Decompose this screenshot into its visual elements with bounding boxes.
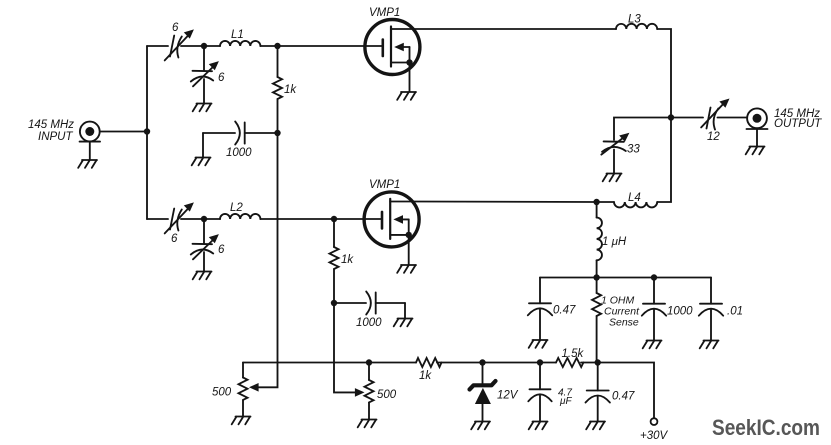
- wire input to bus: [100, 131, 147, 133]
- ground (C9): [529, 340, 548, 348]
- connector J1 input: [80, 122, 100, 160]
- wire drain U1 to L3: [414, 28, 617, 30]
- ground (R4): [232, 417, 251, 425]
- ground (J1): [78, 160, 97, 168]
- wire L3 to output node: [657, 29, 671, 118]
- wire varcap to junction: [181, 45, 204, 47]
- capacitor C10 1000: [642, 278, 666, 341]
- node K (pot2 top): [366, 359, 372, 365]
- svg-text:μF: μF: [559, 396, 572, 407]
- resistor R1 1k (top gate): [273, 46, 282, 133]
- svg-text:6: 6: [218, 244, 225, 256]
- wire top rail left segment: [147, 45, 168, 47]
- svg-text:1k: 1k: [284, 84, 297, 96]
- capacitor C1 variable 6 (series, top): [165, 29, 194, 60]
- svg-text:12V: 12V: [497, 390, 519, 402]
- inductor L4: [614, 202, 657, 207]
- node N (0.47 node): [595, 359, 601, 365]
- svg-text:VMP1: VMP1: [369, 179, 400, 191]
- svg-text:L2: L2: [230, 202, 243, 214]
- node B (gate node Q1): [274, 43, 280, 49]
- node D (output junction): [668, 114, 674, 120]
- svg-text:145 MHz: 145 MHz: [28, 119, 74, 131]
- ground (U1 source): [397, 92, 416, 100]
- ground (C11): [700, 341, 719, 349]
- resistor R7 1.5k: [556, 358, 583, 367]
- ground (C4): [603, 174, 622, 182]
- node J (1000 junction): [651, 274, 657, 280]
- svg-text:6: 6: [172, 22, 179, 34]
- svg-text:Sense: Sense: [609, 317, 639, 329]
- node L (zener node): [479, 359, 485, 365]
- capacitor C3 1000 (top bypass): [203, 122, 278, 158]
- svg-text:.01: .01: [727, 306, 743, 318]
- wire node E to L2: [204, 218, 220, 220]
- svg-text:1.5k: 1.5k: [562, 348, 585, 360]
- svg-text:L3: L3: [628, 14, 641, 26]
- svg-text:500: 500: [377, 389, 397, 401]
- ground (R5): [358, 420, 377, 428]
- capacitor C2 variable 6 (shunt, top): [191, 46, 219, 103]
- svg-text:SeekIC.com: SeekIC.com: [712, 415, 820, 440]
- wire L2 to node F: [260, 218, 334, 220]
- svg-text:VMP1: VMP1: [369, 7, 400, 19]
- svg-text:12: 12: [707, 131, 720, 143]
- svg-text:L1: L1: [231, 29, 244, 41]
- watermark SeekIC.com: [712, 415, 820, 440]
- transistor U2 VMP1 (bottom): [364, 192, 419, 265]
- svg-text:1 μH: 1 μH: [602, 236, 627, 248]
- capacitor C7 variable 6 (shunt, bottom): [191, 219, 219, 271]
- svg-text:+30V: +30V: [640, 430, 669, 442]
- svg-text:0.47: 0.47: [612, 391, 635, 403]
- terminal +30V: [651, 418, 658, 425]
- capacitor C6 variable 6 (series, bottom): [165, 202, 194, 233]
- node E (bottom tune junction): [201, 216, 207, 222]
- ground (C12): [529, 422, 548, 430]
- potentiometer R5 500 (right): [334, 303, 374, 419]
- capacitor C13 0.47: [586, 363, 610, 422]
- svg-text:1000: 1000: [667, 306, 693, 318]
- ground (C13): [586, 422, 605, 430]
- wire node D to C4: [614, 118, 671, 141]
- wire node H to L4: [597, 201, 614, 203]
- node H (L4 junction): [593, 199, 599, 205]
- ground (C7): [193, 272, 212, 280]
- connector J2 output: [747, 108, 768, 146]
- svg-text:500: 500: [212, 387, 232, 399]
- svg-text:1k: 1k: [419, 370, 432, 382]
- wire sense rail: [540, 277, 711, 279]
- svg-text:L4: L4: [628, 192, 641, 204]
- node G (bottom bias node): [331, 300, 337, 306]
- node I (sense rail junction): [593, 274, 599, 280]
- inductor L2: [220, 214, 260, 219]
- inductor L1: [220, 41, 260, 46]
- svg-text:1000: 1000: [226, 147, 252, 159]
- wire varcap to node E: [181, 218, 204, 220]
- ground (C8): [394, 319, 413, 327]
- diode D1 zener 12V: [470, 363, 496, 422]
- ground (J2): [746, 147, 765, 155]
- node M (4.7uF node): [537, 359, 543, 365]
- svg-text:6: 6: [171, 233, 178, 245]
- wire bottom bias rail: [243, 362, 416, 364]
- wire L4 to vertical: [657, 118, 671, 203]
- capacitor C11 .01: [699, 278, 723, 341]
- inductor L5 1uH: [597, 202, 602, 278]
- svg-text:6: 6: [218, 72, 225, 84]
- ground (C2): [193, 104, 212, 112]
- potentiometer R4 500 (left): [239, 133, 278, 416]
- capacitor C4 variable 33: [601, 133, 629, 173]
- svg-text:OUTPUT: OUTPUT: [774, 118, 822, 130]
- wire node D to C5: [671, 117, 703, 119]
- svg-text:33: 33: [627, 144, 640, 156]
- inductor L3: [616, 24, 657, 29]
- ground (U2 source): [397, 265, 416, 273]
- wire junction to L1: [204, 45, 220, 47]
- resistor R3 1 OHM current sense: [592, 278, 601, 363]
- node C (top bias node): [274, 130, 280, 136]
- wire node B to gate U1: [278, 45, 383, 47]
- transistor U1 VMP1 (top): [365, 20, 420, 92]
- capacitor C5 variable 12 (series output): [701, 99, 747, 130]
- wire drain U2 rail: [413, 201, 597, 204]
- node input bus junction: [144, 128, 150, 134]
- svg-text:INPUT: INPUT: [38, 131, 73, 143]
- capacitor C9 0.47: [528, 278, 552, 340]
- node A (top tune junction): [201, 43, 207, 49]
- wire node F to gate U2: [334, 218, 382, 220]
- ground (C3): [192, 158, 211, 166]
- svg-text:1k: 1k: [341, 254, 354, 266]
- svg-text:0.47: 0.47: [553, 305, 576, 317]
- resistor R2 1k (bottom gate): [330, 219, 339, 303]
- capacitor C8 1000 (bottom bypass): [334, 292, 405, 319]
- wire bus to bottom channel: [147, 218, 168, 220]
- ground (D1): [471, 422, 490, 430]
- wire L1 to node B: [260, 45, 277, 47]
- svg-text:1000: 1000: [356, 317, 382, 329]
- resistor R6 1k (horizontal): [416, 358, 441, 367]
- ground (C10): [643, 341, 662, 349]
- capacitor C12 4.7uF: [528, 363, 551, 422]
- node F (gate node Q2): [331, 216, 337, 222]
- wire left bus vertical: [146, 46, 148, 219]
